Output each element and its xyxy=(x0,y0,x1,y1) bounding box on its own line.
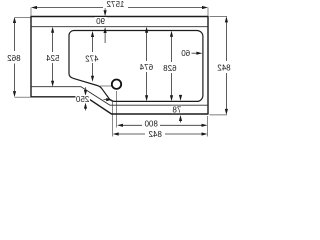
dimension 800 line xyxy=(120,124,204,126)
arrow 674 top xyxy=(145,27,148,33)
svg-text:842: 842 xyxy=(148,130,162,139)
arrow 800 right xyxy=(202,124,208,127)
svg-text:1572: 1572 xyxy=(106,0,124,9)
label 800 xyxy=(144,119,160,127)
arrow 842R top xyxy=(225,16,228,22)
label 90 xyxy=(95,17,107,24)
arrow 1572 right xyxy=(202,6,208,9)
extension line step corner x=112.5 xyxy=(112,100,114,137)
arrow 674 bottom xyxy=(145,95,148,101)
svg-text:250: 250 xyxy=(75,95,89,104)
arrow 842B left xyxy=(113,132,119,135)
dimension 90 upper arrow (points down to top edge) xyxy=(104,8,106,12)
svg-text:674: 674 xyxy=(139,63,153,72)
dimension 78 lower arrow (points up to outer bottom) xyxy=(180,119,182,123)
dimension 842 right line xyxy=(225,20,227,112)
dimension 472 line xyxy=(92,35,94,80)
arrow 842R bottom xyxy=(225,109,228,115)
dimension 60 arrow (points right to floor edge) xyxy=(192,52,200,54)
arrow 472 bottom xyxy=(91,76,94,82)
label 78 xyxy=(172,106,183,113)
leader line to drain xyxy=(100,85,111,87)
rim inner line top xyxy=(31,26,208,28)
label 1572 xyxy=(104,0,128,8)
drain circle xyxy=(112,80,121,89)
svg-text:524: 524 xyxy=(46,54,60,63)
arrow 1572 left xyxy=(31,6,37,9)
extension line top-left (1572 left) xyxy=(30,8,32,17)
label 842 right xyxy=(216,63,232,71)
arrow 628 bottom xyxy=(170,95,173,101)
svg-text:628: 628 xyxy=(163,64,177,73)
label 250 xyxy=(76,95,91,103)
arrow 842B right xyxy=(202,132,208,135)
arrow 524 bottom xyxy=(51,81,54,87)
svg-text:90: 90 xyxy=(96,17,105,26)
dimension 628 line xyxy=(171,34,173,99)
dimension 78 upper arrow (points down to floor bottom) xyxy=(180,96,182,98)
label 628 xyxy=(163,63,178,71)
dimension 250 right arrow (points right to step end) xyxy=(104,99,109,101)
extension line right edge bottom x=207.5 xyxy=(207,116,209,137)
label 60 xyxy=(181,49,192,56)
svg-text:60: 60 xyxy=(181,49,190,58)
svg-text:472: 472 xyxy=(85,55,99,64)
extension tick 842 right bottom xyxy=(210,114,228,116)
dimension 524 line xyxy=(52,30,54,84)
svg-text:800: 800 xyxy=(144,119,158,128)
svg-text:862: 862 xyxy=(7,54,21,63)
dimension 250 upper arrow (points down to step corner) xyxy=(85,87,87,92)
arrow 524 top xyxy=(51,27,54,33)
dimension 862 line xyxy=(14,20,16,94)
tray outer outline xyxy=(31,17,208,115)
arrow 472 top xyxy=(91,31,94,37)
label 524 xyxy=(46,54,61,62)
label 472 xyxy=(85,54,100,62)
dimension 674 line xyxy=(146,30,148,98)
floor outline xyxy=(69,30,203,101)
extension line waste centre x=116.5 xyxy=(116,91,118,128)
dimension 250 lower arrow (points up) xyxy=(85,107,87,111)
extension tick 862 bottom xyxy=(15,96,31,98)
label 842 bottom xyxy=(148,130,164,138)
extension line top-right (1572 right) xyxy=(207,8,209,17)
arrow 800 left xyxy=(117,124,123,127)
rim inner line bottom-left + step diagonal + bottom-right xyxy=(31,87,208,106)
arrow 862 bottom xyxy=(13,91,16,97)
dimension 1572 line xyxy=(35,7,204,9)
svg-text:842: 842 xyxy=(217,64,231,73)
svg-text:78: 78 xyxy=(172,105,181,114)
arrow 862 top xyxy=(13,17,16,23)
extension tick 862 top xyxy=(15,17,31,19)
dimension 90 lower arrow (points up to rim line) xyxy=(104,32,106,43)
label 862 xyxy=(6,53,22,62)
extension tick 842 right top xyxy=(210,15,228,17)
label 674 xyxy=(139,63,154,71)
arrow 628 top xyxy=(170,31,173,37)
dimension 842 bottom line xyxy=(116,133,204,135)
